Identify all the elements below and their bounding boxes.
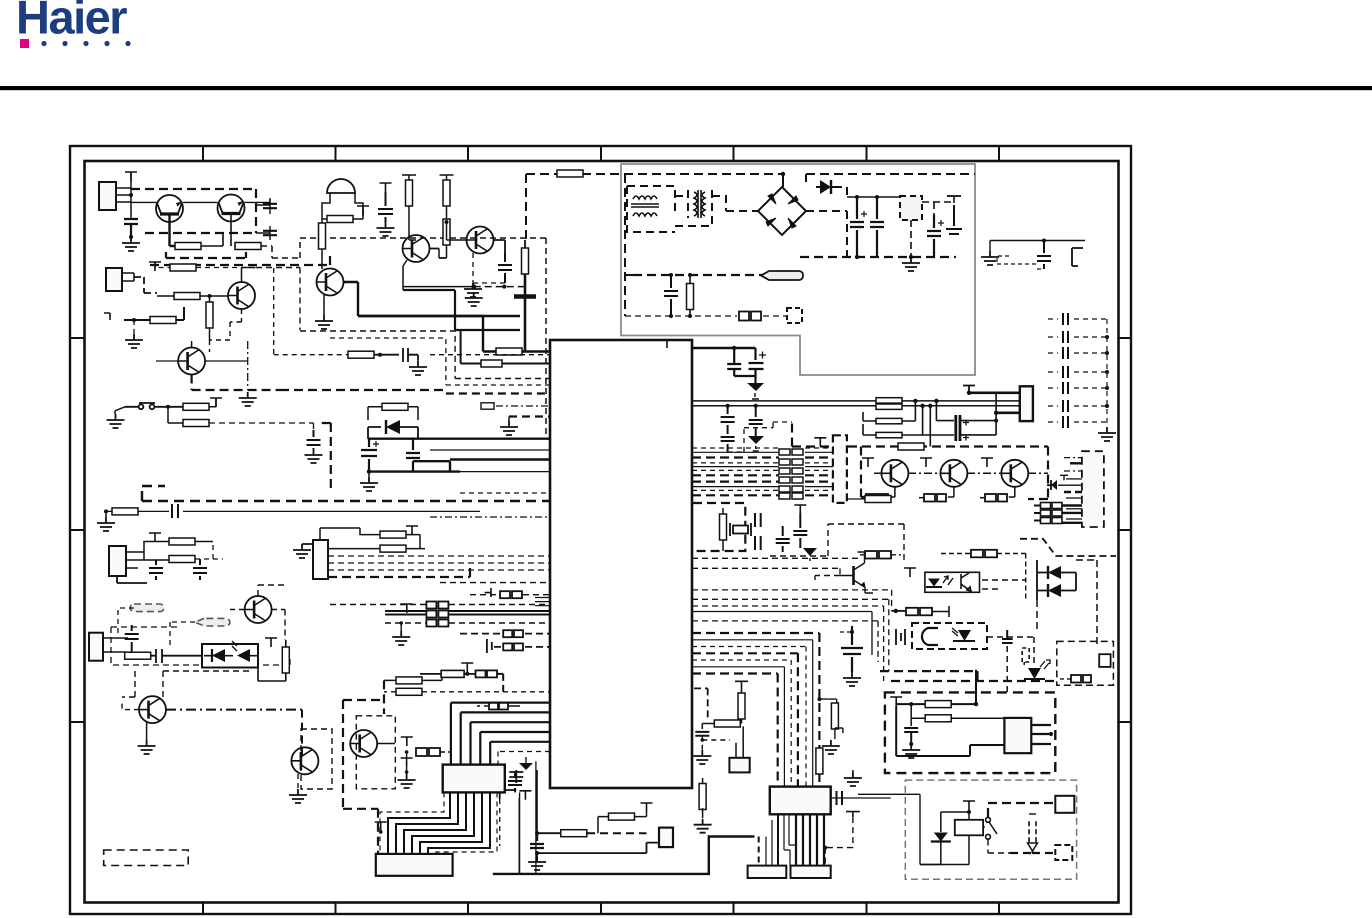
transformer T1 primary box dashed bbox=[627, 186, 675, 232]
cap C15 bbox=[406, 439, 420, 472]
U5 pins down bbox=[796, 814, 824, 865]
wire U9 right bbox=[1031, 725, 1051, 744]
T bar U6 bbox=[904, 568, 916, 577]
wire thermostat bottom bbox=[896, 745, 1004, 756]
resistor R13 bbox=[348, 351, 374, 358]
wire right dashed drop bbox=[1028, 447, 1048, 500]
wire bridge output dashed bbox=[806, 187, 847, 257]
resistor R46 bbox=[1060, 678, 1071, 680]
cap C19 bbox=[125, 625, 139, 652]
wire long bus to CN10 bbox=[692, 401, 1021, 406]
cap C2 bbox=[870, 197, 884, 257]
transistor Q14 discrete bbox=[840, 563, 865, 587]
wire down from Q5a bbox=[403, 290, 520, 330]
opto LED bbox=[212, 649, 225, 662]
cap C14 electrolytic bbox=[361, 439, 377, 472]
IC right pin bus lines bbox=[692, 448, 833, 495]
ground rows bbox=[400, 623, 402, 631]
opto photodiode bbox=[237, 649, 250, 662]
ground T bbox=[406, 767, 408, 774]
wire Q12 emitter bbox=[948, 487, 954, 497]
resistor R40 vertical below crystal bbox=[702, 778, 704, 785]
border ticks bottom bbox=[203, 903, 999, 915]
dashed bus down from cluster bbox=[150, 252, 330, 265]
wire dashed vertical bbox=[301, 710, 303, 756]
cap C11 bbox=[498, 253, 512, 283]
resistor R33 vertical bbox=[720, 514, 727, 540]
buzzer box bbox=[322, 193, 363, 219]
transformer T2 core bbox=[694, 190, 705, 218]
resistor R20 bbox=[380, 531, 406, 538]
ground C13 bbox=[305, 449, 323, 463]
IC U4 bbox=[443, 765, 505, 793]
resistor R8 vertical bbox=[319, 223, 326, 249]
T top bbox=[125, 172, 137, 181]
wire thick dashed row bbox=[446, 392, 550, 394]
wire Q14 emitter bbox=[865, 587, 873, 593]
wire U7 out bbox=[987, 637, 1034, 665]
wire cap to CN10 bbox=[960, 393, 996, 435]
transistor Q3 bbox=[228, 282, 255, 309]
resistor R48 bbox=[925, 715, 951, 722]
cap C6 bbox=[1037, 241, 1051, 270]
optocoupler U6 transistor bbox=[961, 573, 971, 591]
ground right of PSU bbox=[981, 251, 999, 265]
diode blob CN13 bbox=[1051, 480, 1057, 490]
terminal lug CN bbox=[761, 271, 803, 280]
cap C30 bbox=[530, 833, 544, 853]
resistor R14 bbox=[183, 403, 209, 410]
wire to opto bbox=[176, 655, 202, 657]
wire stubs to CN8 bbox=[759, 815, 778, 866]
svg-text:Haier: Haier bbox=[16, 0, 127, 44]
wire diodes bbox=[1037, 560, 1076, 600]
resistor R22 bbox=[125, 652, 151, 659]
ground R40 bbox=[694, 819, 712, 833]
ground C24 bbox=[748, 436, 764, 444]
relay box bbox=[905, 780, 1076, 879]
ground pin row bbox=[508, 417, 510, 422]
T bar U8 bbox=[814, 438, 826, 447]
resistor pair row5 bbox=[494, 646, 550, 648]
dashed box Q8 bbox=[122, 671, 250, 697]
transistor Q13 bbox=[1001, 460, 1028, 487]
dash-dot vertical bbox=[247, 341, 249, 390]
wire solid double to IC bbox=[385, 611, 550, 615]
T bar thermostat bbox=[890, 697, 902, 706]
ground Q3 bbox=[125, 334, 143, 348]
optocoupler U7 C-shape bbox=[922, 628, 938, 645]
T bar R35 bbox=[641, 803, 653, 812]
wire Q11 emitter bbox=[889, 487, 895, 497]
optocoupler feed resistor R43 bbox=[858, 554, 865, 556]
ground C36 bbox=[843, 672, 861, 686]
cap C24 electrolytic bbox=[749, 406, 763, 436]
double diode D5 bbox=[1048, 584, 1061, 597]
wire thick CN10 bbox=[969, 393, 1020, 413]
resistor R56 small bbox=[481, 403, 494, 409]
wire relay feed bbox=[858, 794, 941, 864]
inner drawing border bbox=[85, 161, 1119, 903]
cap C9 bbox=[263, 231, 277, 235]
cap C32 bbox=[695, 732, 709, 736]
T bar buzzer bbox=[357, 206, 369, 215]
resistor R1 bbox=[175, 243, 201, 250]
bridge diode arms bbox=[766, 194, 798, 228]
bottom-left dashed rect label bbox=[104, 850, 189, 866]
T bar CN10 bbox=[963, 386, 975, 393]
transistor row T bars bbox=[862, 458, 874, 467]
transistor Q2 bbox=[218, 195, 245, 222]
wire bus B1 thick bbox=[368, 438, 550, 440]
ground C22 bbox=[747, 383, 764, 391]
wire IC bottom-left cap bbox=[499, 770, 523, 799]
wire thick vertical with cap bbox=[524, 274, 527, 352]
wire CN4 pins dashed right bbox=[328, 556, 550, 570]
border ticks top bbox=[203, 146, 999, 161]
cap C17 bbox=[149, 560, 163, 580]
wire bus top solid corner 1 bbox=[358, 316, 550, 352]
resistor R55 bbox=[481, 360, 502, 367]
resistor R30 dashed pair bbox=[924, 494, 946, 502]
resistor R27 bbox=[876, 432, 902, 437]
wire vertical bbox=[130, 172, 132, 219]
cap C28 bbox=[776, 526, 790, 552]
dashed box right lower bbox=[1057, 641, 1114, 685]
wire U5 right cap bbox=[831, 797, 891, 799]
resistor R34 bbox=[561, 830, 587, 837]
square SQ2 bbox=[1055, 845, 1072, 860]
U4 bottom pins staircase bbox=[388, 792, 490, 854]
resistor stack CN13 bbox=[1041, 503, 1063, 524]
connector CN9 bbox=[791, 866, 831, 878]
wire PSU left vertical dashed bbox=[625, 174, 633, 316]
transistor Q7 bbox=[245, 596, 272, 623]
dashed box right cluster bbox=[1037, 560, 1097, 648]
wire dashed thin to resistor bbox=[274, 268, 348, 355]
cap C7 bbox=[124, 219, 138, 237]
wire diagonal dashed bbox=[1020, 539, 1116, 556]
dashed vertical long bbox=[525, 174, 527, 240]
dashed box U6 bbox=[925, 572, 980, 592]
IC left bottom pins L-bus to U4 bbox=[451, 703, 550, 765]
transformer T1 coils bbox=[631, 196, 659, 216]
cap C29 bbox=[793, 513, 807, 548]
cap C13 bbox=[307, 430, 321, 449]
ground arrow U4 bbox=[519, 763, 533, 770]
connector CN5 bbox=[89, 633, 103, 661]
cap C5 bbox=[664, 275, 678, 316]
fuse F2 bbox=[739, 312, 761, 321]
driver IC U8 bbox=[833, 435, 847, 503]
cap C8 bbox=[263, 204, 277, 208]
wire right of PSU bbox=[990, 241, 1085, 252]
transistor Q12 bbox=[940, 460, 967, 487]
diode D1 bbox=[782, 174, 784, 187]
ground C30 bbox=[535, 851, 539, 855]
resistor R9 vertical bbox=[406, 180, 413, 206]
T bar R49 bbox=[461, 663, 473, 672]
wire ground branch bbox=[133, 320, 135, 334]
connector CN13 dashed bbox=[1082, 451, 1104, 527]
resistor R41 vertical on bus bbox=[816, 748, 823, 774]
wire Q6 emitter to bus bbox=[192, 375, 280, 391]
resistor block stack bbox=[426, 602, 448, 627]
wire CN2 to Q3 bbox=[134, 277, 157, 293]
wire bus B4 thin bbox=[106, 510, 480, 512]
wire R47 right bbox=[951, 670, 976, 704]
ground Q4 bbox=[323, 295, 325, 315]
wire long bottom thick bbox=[493, 837, 755, 874]
wire to caps bbox=[256, 198, 270, 240]
wire PSU bottom dashed thin bbox=[625, 315, 787, 317]
wire dashed drop left bbox=[499, 799, 501, 846]
wire CN4 top bbox=[302, 528, 360, 544]
arrow symbol bbox=[1029, 821, 1036, 845]
resistor array RA1 bbox=[779, 449, 803, 499]
wire dashed row y354 extension bbox=[430, 354, 550, 356]
resistor R29 dashed pair bbox=[866, 494, 888, 502]
main IC U1 bbox=[550, 340, 692, 788]
ground C7 bbox=[122, 237, 140, 251]
wire bus B2 thick bbox=[369, 460, 550, 472]
resistor R28 bbox=[898, 443, 924, 450]
wire Q10 bbox=[377, 743, 395, 745]
bridge rectifier BD1 bbox=[758, 187, 806, 235]
regulator U2 dashed box bbox=[900, 196, 922, 220]
wire R15 dashed to cap bbox=[209, 423, 314, 430]
resistor R7 bbox=[327, 216, 353, 223]
T bar opto bbox=[265, 638, 277, 647]
wire verticals to bus bbox=[930, 401, 954, 447]
cap C20 series bbox=[151, 649, 176, 663]
resistor R16 bbox=[382, 403, 408, 410]
optocoupler U7 LED bbox=[958, 630, 971, 641]
wire rows to IC left: dashed bbox=[440, 582, 550, 584]
wire node bbox=[855, 195, 859, 199]
resistor R44 bbox=[941, 553, 971, 555]
T bar C10 bbox=[380, 183, 392, 192]
fuse F1 bbox=[557, 170, 583, 177]
wire switch down dashed bbox=[988, 840, 1010, 854]
wire AC input dashed bbox=[526, 174, 783, 187]
resistor R31 dashed pair bbox=[985, 494, 1007, 502]
ground B bbox=[367, 469, 371, 473]
wire row dash-dot bbox=[874, 472, 1048, 474]
wire to CN11 bottom bbox=[537, 843, 659, 854]
outer drawing border bbox=[70, 146, 1131, 914]
ground PSU bbox=[902, 257, 920, 271]
wire CN2 bbox=[122, 273, 134, 281]
connector CN10 bbox=[1020, 386, 1033, 421]
wire bus dashed corner 3 bbox=[300, 331, 550, 379]
connector CN11 bbox=[659, 828, 673, 848]
ground Q8 bbox=[138, 740, 156, 754]
wire bus dashed corner 4 bbox=[330, 338, 550, 385]
ground Q5 bbox=[473, 253, 505, 283]
crystal X1 bbox=[730, 523, 751, 536]
wire PSU bottom bus dashed bbox=[800, 256, 956, 258]
wire Q8 collector dash-dot bbox=[166, 709, 302, 711]
cap C31 series bbox=[837, 791, 843, 805]
cap row5 bbox=[487, 639, 492, 653]
ground mid bbox=[239, 392, 257, 406]
wire U6 out bbox=[982, 580, 1026, 589]
wire dashed Q6 bus extension bbox=[280, 389, 445, 391]
wire CN4 bottom thick dashed bbox=[328, 568, 470, 577]
transistor Q4 bbox=[317, 269, 344, 296]
wire dashed cap link bbox=[728, 422, 792, 452]
wire dashed to CN11 bbox=[587, 832, 647, 834]
ground right of U5 bbox=[852, 770, 854, 772]
terminal lug P2 bbox=[195, 618, 230, 626]
cap C34 bbox=[904, 728, 918, 744]
wire R13 to cap bbox=[374, 354, 399, 356]
T bar left bbox=[104, 313, 124, 320]
ground C12 bbox=[409, 361, 427, 375]
switch S1 bbox=[125, 403, 183, 409]
resistor R3 bbox=[170, 264, 196, 271]
transistor Q1 bbox=[156, 195, 183, 222]
wire to R15 bbox=[168, 407, 183, 423]
resistor R25 pair bbox=[876, 398, 902, 403]
CN13 pin rows bbox=[1058, 458, 1082, 523]
crystal box dashed bbox=[693, 503, 745, 551]
resistor pair row4 bbox=[460, 633, 550, 635]
T bar right bbox=[846, 812, 860, 818]
wire U4 right down bbox=[520, 761, 536, 874]
IC top inner tick bbox=[666, 341, 668, 348]
T bar CN3 bbox=[149, 533, 161, 542]
ground below C32 bbox=[693, 750, 711, 764]
wire CN5 pins bbox=[103, 638, 128, 652]
wire Q1 collector bbox=[170, 214, 176, 246]
resistor R32 bbox=[865, 496, 891, 503]
resistor R15 bbox=[183, 420, 209, 427]
wire Q6 collector bbox=[191, 341, 193, 348]
T bar crystal bbox=[794, 505, 806, 514]
dashed box Q10 bbox=[356, 716, 395, 789]
wire U8 right bbox=[847, 498, 867, 500]
wire dashed to ground bbox=[702, 736, 730, 750]
T bar small bbox=[519, 791, 531, 800]
T bar K1 bbox=[963, 801, 975, 810]
resistor R18 bbox=[169, 538, 195, 545]
T bar CN13 bbox=[1060, 475, 1068, 480]
resistor R54 bbox=[496, 348, 522, 355]
dashed box CN5 bbox=[111, 627, 290, 665]
wire R1-R2 bbox=[201, 233, 223, 246]
resistor R17 bbox=[112, 508, 138, 515]
wire dashed row3 bbox=[385, 622, 550, 624]
T bar cluster bbox=[401, 737, 413, 746]
wire dashed top-right bbox=[806, 174, 975, 182]
border ticks right bbox=[1119, 338, 1132, 722]
header rule bbox=[0, 86, 1372, 90]
wire dashed row2 bbox=[330, 604, 550, 606]
Haier logo pink square bbox=[20, 39, 29, 48]
wire T1-T2 dashed bbox=[675, 190, 758, 226]
wire switch left ground bbox=[115, 407, 125, 414]
resistor R42 vertical bbox=[819, 699, 836, 704]
dashed box Q9 bbox=[301, 729, 332, 789]
T node bbox=[401, 758, 413, 767]
connector CN4 mid bbox=[313, 540, 328, 579]
cap C3 electrolytic bbox=[927, 215, 941, 257]
resistor R45 dashed bbox=[892, 610, 906, 612]
cap C22 electrolytic bbox=[749, 348, 764, 383]
resistor pair R50 bbox=[476, 670, 498, 677]
wire dashed drop right bbox=[825, 817, 853, 865]
cap C4 bbox=[946, 196, 962, 234]
cap stack CS right bbox=[1048, 313, 1107, 428]
connector small square bbox=[787, 308, 802, 323]
wire Q5a to R11 bbox=[429, 249, 447, 259]
cap C26 series bbox=[755, 513, 761, 527]
connector CN1 bbox=[99, 182, 116, 210]
cap C18 bbox=[193, 559, 207, 580]
dashed thick vertical down bbox=[320, 423, 331, 491]
resistor R11 vertical bbox=[443, 219, 450, 245]
wire res chain bbox=[537, 832, 560, 834]
double diode D4 bbox=[1048, 566, 1061, 579]
T bar R20 bbox=[406, 526, 418, 535]
cap C23 string bbox=[721, 406, 735, 452]
resistor R52 bbox=[396, 688, 422, 695]
resistor R-psu vertical bbox=[689, 275, 691, 316]
wire to terminal dashed bbox=[633, 274, 766, 276]
dashed box crystal right bbox=[770, 524, 904, 560]
border ticks left bbox=[70, 338, 85, 722]
smoothing cap C1 electrolytic bbox=[850, 197, 864, 257]
wire CN3 pins bbox=[126, 552, 144, 568]
wire thick dashed cross bbox=[880, 671, 1056, 681]
wire Q14 collector bbox=[858, 552, 865, 563]
transistor Q6 bbox=[178, 348, 205, 375]
cap C16 series bbox=[172, 504, 178, 518]
box CN12 bbox=[736, 726, 743, 757]
thermostat box bbox=[885, 692, 1055, 773]
connector CN8 bbox=[748, 866, 787, 878]
cap C35 bbox=[508, 773, 522, 793]
wire CN1 pins bbox=[116, 188, 131, 202]
dashed box U7 bbox=[912, 623, 987, 649]
wire Q3 collector up bbox=[242, 268, 256, 283]
resistor pair row1 bbox=[470, 594, 550, 596]
wire solid pair below crystal bbox=[692, 612, 872, 656]
wire regulator out bbox=[911, 196, 954, 257]
buzzer BZ1 dome bbox=[327, 179, 355, 193]
resistor R49 bbox=[441, 670, 464, 677]
connector CN2 bbox=[106, 268, 122, 291]
ground cap stack bbox=[1098, 427, 1116, 441]
resistor R12 vertical bbox=[522, 248, 529, 274]
resistor R38 vertical bbox=[738, 693, 745, 719]
ground joint bbox=[465, 292, 483, 306]
T bar row bbox=[401, 604, 413, 613]
resistor R47 bbox=[925, 701, 951, 708]
resistor R24 dashed bbox=[416, 748, 440, 756]
T bar R14 bbox=[210, 398, 222, 407]
T bar bbox=[149, 262, 161, 271]
connector CN3 bbox=[109, 546, 126, 576]
transistor Q11 bbox=[881, 460, 908, 487]
Haier logo dots bbox=[41, 41, 130, 46]
dashed wire right bbox=[256, 268, 300, 331]
wire R39 left cap bbox=[702, 724, 714, 730]
dashed wire lug1 bbox=[118, 608, 195, 648]
transistor Q5 bbox=[467, 227, 494, 254]
